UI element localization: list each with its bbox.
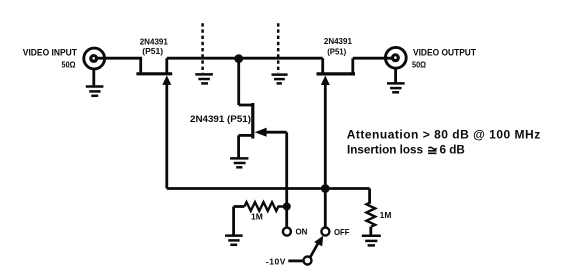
ground (input connector) [86,69,104,96]
svg-text:Attenuation > 80 dB @ 100 MHz: Attenuation > 80 dB @ 100 MHz [347,127,541,141]
svg-text:50Ω: 50Ω [412,61,426,70]
connector J1 video input [84,48,105,69]
glyph approximately-equal (composed) [428,147,437,153]
svg-text:-10V: -10V [266,256,286,266]
svg-text:Insertion loss: Insertion loss [347,144,423,157]
ground (output connector) [387,69,405,93]
wire Q1 drain to Q3 source (top bus) [167,57,323,60]
wire -10V to switch pivot [288,259,303,262]
ground (R2) [362,236,381,246]
wire Q2 gate to ON branch [266,131,287,134]
resistor R2 1M (series gate pulldown) [366,189,375,236]
node: R1 / ON junction [283,203,291,211]
transistor Q1 2N4391 (series, input side) [136,58,172,85]
connector J2 video output [385,47,406,68]
node: Q3 gate / OFF junction [321,184,330,193]
shield partition 2 (dashed) [277,23,280,73]
svg-text:OFF: OFF [334,227,350,237]
ground (shield 2) [272,75,288,84]
switch S1 lever [304,236,324,265]
svg-text:2N4391: 2N4391 [140,37,168,47]
transistor Q3 2N4391 (series, output side) [317,58,356,85]
ground (shield 1) [195,74,213,83]
wire Q1 gate lead down to control rail [165,84,168,189]
svg-text:50Ω: 50Ω [62,61,76,70]
shield partition 1 (dashed) [201,23,204,73]
svg-text:2N4391: 2N4391 [324,36,352,46]
wire Q3 drain to output connector [353,57,396,60]
svg-text:6 dB: 6 dB [440,144,465,157]
resistor R1 1M (shunt gate pulldown) [234,202,287,235]
svg-text:VIDEO INPUT: VIDEO INPUT [23,47,78,57]
svg-text:2N4391 (P51): 2N4391 (P51) [190,114,251,124]
ground (R1) [225,236,243,245]
wire Q3 gate lead down to rail [324,84,327,188]
svg-text:ON: ON [296,226,308,236]
svg-text:(P51): (P51) [327,46,346,56]
wire control rail (gate bus) [167,187,370,190]
svg-text:VIDEO OUTPUT: VIDEO OUTPUT [413,47,476,57]
node: shunt drain junction on top bus [234,54,243,63]
svg-text:1M: 1M [380,210,392,220]
transistor Q2 2N4391 (shunt) [239,58,267,158]
terminal OFF [324,193,327,228]
svg-text:1M: 1M [251,211,263,221]
wire input centre pin to Q1 source [94,57,142,60]
ground (Q2 source) [230,158,248,167]
svg-text:(P51): (P51) [142,46,163,56]
terminal ON [283,228,291,236]
